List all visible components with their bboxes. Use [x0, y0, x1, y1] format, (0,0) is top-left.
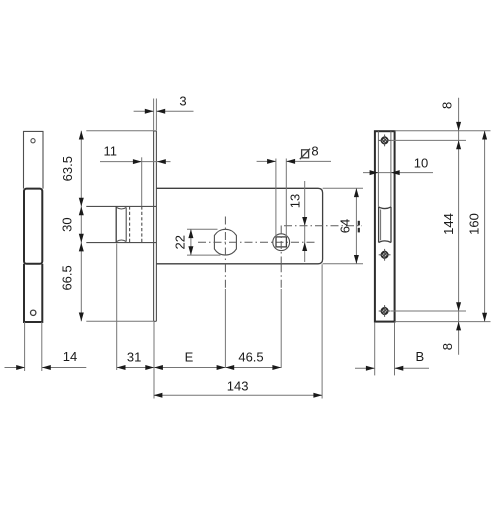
extension cylinder center	[224, 264, 226, 289]
left faceplate top screw hole	[31, 139, 35, 143]
square symbol	[302, 150, 309, 158]
svg-text:10: 10	[414, 156, 428, 171]
spindle square 8mm	[276, 237, 286, 247]
dim 46.5	[225, 365, 234, 370]
svg-text:11: 11	[103, 144, 117, 159]
left view lock case front (rounded)	[24, 189, 42, 264]
svg-text:63.5: 63.5	[60, 156, 75, 181]
right plate screw hole bottom	[381, 308, 388, 315]
spindle hole circle	[273, 234, 290, 251]
svg-text:66.5: 66.5	[60, 265, 75, 290]
dim 64 (body height)	[323, 187, 363, 189]
lock body outline	[156, 188, 322, 263]
right plate screw hole middle	[381, 252, 388, 259]
cylinder vertical centerline	[224, 217, 226, 265]
svg-text:31: 31	[127, 349, 141, 364]
svg-text:64: 64	[338, 219, 353, 233]
svg-text:13: 13	[288, 194, 303, 208]
dim 22 (cylinder hole)	[187, 228, 218, 230]
case edges behind right plate	[377, 131, 379, 207]
svg-text:B: B	[415, 349, 424, 364]
equals (symmetry) marks	[358, 221, 360, 226]
svg-text:3: 3	[179, 94, 186, 109]
left faceplate top section	[24, 131, 44, 188]
dim 14 (left plate width)	[24, 322, 26, 371]
left faceplate bottom section	[24, 264, 42, 322]
svg-text:8: 8	[311, 143, 318, 158]
cylinder hole (22 flat)	[214, 229, 236, 255]
dim column 63.5 / 30 / 66.5	[80, 131, 82, 322]
dim square-8 (spindle)	[275, 159, 277, 237]
dim 160 (plate height)	[484, 131, 486, 322]
extension spindle center	[280, 264, 282, 289]
dim E (backset)	[154, 365, 163, 370]
right plate screw hole top	[381, 137, 388, 144]
faceplate edge view (3mm)	[153, 131, 155, 321]
svg-text:14: 14	[63, 349, 77, 364]
svg-text:144: 144	[441, 213, 456, 235]
dim 10 (case width)	[363, 172, 433, 174]
dim 3 (faceplate thickness)	[153, 99, 155, 131]
svg-text:160: 160	[467, 213, 482, 235]
dim 13 (center offset)	[304, 181, 306, 262]
right plate roller slot	[378, 207, 380, 243]
body horizontal centerline	[284, 225, 362, 227]
dim 11 (latch projection)	[100, 161, 171, 163]
dim 143 (body length)	[153, 322, 155, 399]
svg-text:22: 22	[173, 235, 188, 249]
right side vertical dims 8/144/8	[395, 130, 491, 132]
svg-text:46.5: 46.5	[238, 349, 263, 364]
dim B (right plate width)	[374, 322, 376, 375]
left faceplate bottom screw hole	[31, 310, 36, 315]
svg-text:143: 143	[227, 379, 249, 394]
svg-text:8: 8	[439, 102, 454, 109]
svg-text:E: E	[185, 350, 194, 365]
latch roller (protruding)	[86, 205, 156, 207]
svg-text:30: 30	[60, 217, 75, 231]
latch hidden edges (dashed)	[129, 206, 131, 242]
hole horizontal centerline	[198, 241, 315, 243]
svg-text:8: 8	[440, 343, 455, 350]
right plate outline	[375, 131, 395, 321]
spindle vertical centerline	[280, 226, 282, 265]
dim 31	[116, 244, 118, 371]
